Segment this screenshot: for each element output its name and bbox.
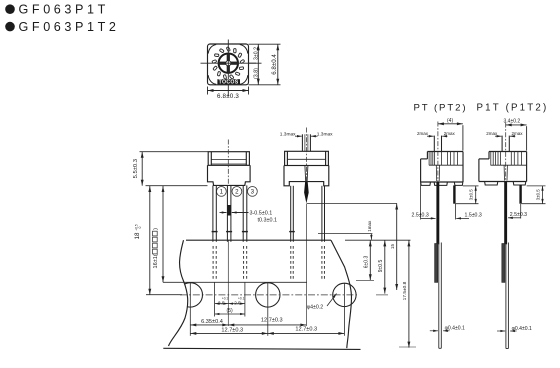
svg-text:φ0.4±0.1: φ0.4±0.1 <box>512 326 532 332</box>
svg-text:1.3max: 1.3max <box>280 132 296 138</box>
svg-text:1: 1 <box>220 189 224 196</box>
svg-text:15: 15 <box>390 244 395 250</box>
svg-text:5.5±0.3: 5.5±0.3 <box>133 159 139 178</box>
svg-text:GF063P1T: GF063P1T <box>19 3 109 17</box>
svg-text:2max: 2max <box>512 131 524 136</box>
svg-text:3-0.5±0.1: 3-0.5±0.1 <box>250 211 273 217</box>
svg-text:2max: 2max <box>444 131 456 136</box>
svg-text:12.7±0.3: 12.7±0.3 <box>261 317 283 323</box>
svg-text:(4): (4) <box>447 118 453 124</box>
svg-text:6.35±0.4: 6.35±0.4 <box>201 319 223 325</box>
svg-text:TOCOS: TOCOS <box>219 80 239 86</box>
svg-text:2max: 2max <box>417 131 429 136</box>
svg-text:6.8±0.4: 6.8±0.4 <box>271 54 278 75</box>
svg-text:3.4±0.2: 3.4±0.2 <box>504 118 521 124</box>
svg-text:12.7±0.3: 12.7±0.3 <box>295 326 317 332</box>
svg-text:0: 0 <box>138 226 142 228</box>
svg-text:P1T (P1T2): P1T (P1T2) <box>477 103 549 114</box>
svg-text:(5): (5) <box>227 308 233 314</box>
svg-text:+0.1: +0.1 <box>238 297 245 301</box>
svg-text:+0.1: +0.1 <box>222 297 229 301</box>
svg-text:PT (PT2): PT (PT2) <box>414 102 468 113</box>
svg-text:1max: 1max <box>367 220 372 232</box>
svg-text:2.5: 2.5 <box>234 300 241 306</box>
svg-text:(3.8): (3.8) <box>254 68 260 79</box>
svg-text:9±0.5: 9±0.5 <box>378 260 384 273</box>
svg-text:2: 2 <box>235 189 239 196</box>
svg-text:6±0.3: 6±0.3 <box>363 256 369 269</box>
svg-text:2.5±0.3: 2.5±0.3 <box>510 212 527 218</box>
svg-text:1.5±0.3: 1.5±0.3 <box>465 213 482 219</box>
svg-text:6.8±0.3: 6.8±0.3 <box>217 93 239 100</box>
svg-text:t0.3±0.1: t0.3±0.1 <box>258 218 277 224</box>
svg-text:3±0.5: 3±0.5 <box>535 189 540 201</box>
svg-text:18: 18 <box>134 232 141 239</box>
svg-text:2max: 2max <box>486 131 498 136</box>
svg-text:φ4±0.2: φ4±0.2 <box>307 305 323 311</box>
svg-text:1.3max: 1.3max <box>317 132 333 138</box>
svg-text:17.5±0.8: 17.5±0.8 <box>402 281 408 300</box>
svg-text:3: 3 <box>251 189 255 196</box>
svg-text:16±1(: 16±1( <box>153 254 159 268</box>
svg-text:12.7±0.3: 12.7±0.3 <box>221 328 243 334</box>
svg-text:2.5±0.3: 2.5±0.3 <box>412 213 429 219</box>
svg-text:3±0.2: 3±0.2 <box>254 47 260 60</box>
svg-text:φ0.4±0.1: φ0.4±0.1 <box>445 326 465 332</box>
svg-text:GF063P1T2: GF063P1T2 <box>19 20 120 34</box>
svg-text:2.5: 2.5 <box>218 300 225 306</box>
svg-text:): ) <box>153 228 159 230</box>
svg-text:3±0.5: 3±0.5 <box>469 189 474 201</box>
